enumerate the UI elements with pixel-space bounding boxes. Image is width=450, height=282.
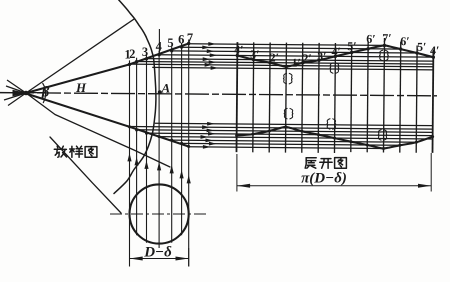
arrowheads right top lines	[202, 42, 218, 70]
wires bottom projection lines	[129, 123, 433, 149]
svg-text:7: 7	[187, 31, 193, 45]
svg-text:2: 2	[129, 47, 135, 61]
svg-text:6′: 6′	[366, 32, 375, 46]
svg-text:1′: 1′	[292, 56, 301, 70]
wire steep upper radius line	[26, 19, 135, 93]
wire center axis line	[0, 92, 437, 96]
svg-text:D−δ: D−δ	[143, 245, 172, 261]
wire vertical above point 4	[158, 29, 160, 55]
wire second lower line	[26, 93, 170, 167]
svg-text:2′: 2′	[302, 51, 311, 65]
svg-text:3′: 3′	[250, 47, 259, 61]
svg-text:3′: 3′	[317, 49, 326, 63]
wires top projection lines	[130, 43, 434, 70]
break mark squiggle	[330, 63, 333, 73]
node dots on top slant 1-7	[128, 42, 191, 66]
break mark squiggle	[379, 50, 382, 60]
node A dot	[158, 90, 162, 94]
wire steep lower line	[50, 137, 121, 213]
svg-text:4′: 4′	[234, 43, 243, 57]
angle arc at apex	[43, 83, 46, 102]
svg-text:4′: 4′	[430, 43, 439, 57]
break mark squiggle	[283, 73, 286, 83]
svg-text:4′: 4′	[331, 44, 340, 58]
break mark squiggle	[284, 108, 287, 118]
svg-text:5: 5	[167, 36, 173, 50]
node apex star cluster	[0, 80, 46, 106]
labels development points	[234, 30, 440, 71]
svg-text:5′: 5′	[417, 40, 426, 54]
circle pipe section D-delta	[130, 184, 189, 243]
svg-text:π(D−δ): π(D−δ)	[301, 171, 347, 187]
arrowheads right bottom lines	[200, 122, 216, 149]
node dots development top	[236, 42, 436, 69]
wire circle horizontal centerline	[110, 213, 208, 215]
label fangyangtu	[54, 146, 97, 157]
svg-text:7′: 7′	[382, 31, 391, 45]
svg-text:2′: 2′	[270, 50, 279, 64]
svg-text:6′: 6′	[400, 34, 409, 48]
break mark squiggle	[327, 119, 330, 129]
svg-text:3: 3	[142, 45, 148, 59]
wire bottom slant element line	[26, 94, 189, 147]
dimension pi(D-delta)	[237, 153, 431, 192]
svg-text:5′: 5′	[347, 39, 356, 53]
curve development top edge	[237, 44, 433, 68]
labels 1-7	[124, 31, 193, 62]
dimension D-delta	[130, 248, 189, 267]
label zhankaitu	[305, 158, 346, 169]
wire projection verticals 1-7	[130, 40, 189, 267]
node dots on bottom slant	[128, 125, 190, 148]
node dots development bottom	[235, 125, 434, 150]
wire top slant element line	[26, 44, 189, 94]
arrowheads up on verticals	[127, 153, 190, 183]
break mark squiggle	[378, 130, 381, 140]
arc true-length swing arc	[114, 0, 156, 194]
curve development bottom edge	[237, 126, 433, 148]
wires development verticals	[236, 37, 433, 154]
